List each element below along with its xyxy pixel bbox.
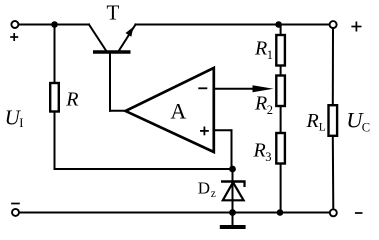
svg-text:R: R: [254, 38, 267, 60]
svg-text:R: R: [254, 93, 267, 115]
svg-text:A: A: [170, 99, 186, 124]
svg-text:R: R: [253, 140, 266, 162]
svg-text:I: I: [19, 116, 23, 130]
svg-text:T: T: [107, 1, 120, 25]
svg-text:R: R: [65, 89, 78, 111]
svg-text:1: 1: [267, 48, 273, 62]
svg-text:3: 3: [265, 150, 271, 164]
svg-text:R: R: [306, 110, 319, 132]
svg-text:2: 2: [267, 103, 273, 117]
svg-text:z: z: [211, 188, 216, 200]
svg-text:L: L: [319, 121, 326, 133]
svg-text:D: D: [198, 178, 210, 197]
svg-text:C: C: [362, 120, 370, 134]
